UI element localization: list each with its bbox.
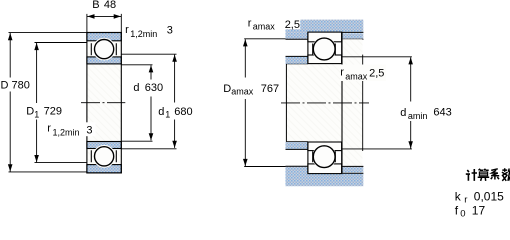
groove clearance right bottom <box>312 145 336 169</box>
left inner ring top section (blue) <box>87 57 121 64</box>
dimension d: bottom arrow <box>149 133 154 140</box>
housing shoulder tab bottom-left (blue) <box>286 166 308 173</box>
svg-text:D: D <box>223 83 231 95</box>
svg-text:767: 767 <box>261 83 279 95</box>
centerline left figure <box>81 102 125 104</box>
ball right bottom <box>313 146 335 168</box>
right race shoulders top <box>313 44 336 55</box>
svg-text:r: r <box>464 195 467 206</box>
right bearing bottom outer ring (white) <box>308 164 342 174</box>
dimension da min: extension lines <box>342 57 412 149</box>
shaft shoulder strip top border <box>286 55 308 57</box>
dimension B: extension lines <box>87 14 121 33</box>
svg-text:0,015: 0,015 <box>474 189 504 203</box>
housing bottom band (blue) <box>286 174 364 187</box>
right bearing top inner ring (white) <box>308 55 342 64</box>
dimension D: extension lines <box>9 33 87 172</box>
svg-text:f: f <box>455 203 459 217</box>
svg-text:amax: amax <box>231 87 254 97</box>
svg-text:2,5: 2,5 <box>369 68 384 80</box>
shaft shoulder strip bottom border <box>286 148 308 150</box>
housing shoulder tab bottom-left top border <box>286 165 308 167</box>
label ra max 2,5 middle (on white box) <box>340 65 386 82</box>
right bearing section side faces top <box>308 32 342 64</box>
right race shoulders bottom <box>313 151 336 162</box>
svg-text:3: 3 <box>167 25 173 37</box>
label r12min 3 bottom (on white box) <box>83 122 96 136</box>
ball right top <box>313 38 335 60</box>
dimension d1: extension lines <box>121 54 176 149</box>
svg-text:2,5: 2,5 <box>285 19 300 31</box>
ball top <box>95 40 114 59</box>
dimension Da max: dimension line <box>244 39 246 166</box>
svg-text:B: B <box>92 0 99 11</box>
bottom race shoulders <box>91 150 116 162</box>
svg-text:1,2min: 1,2min <box>53 127 80 137</box>
right bearing top outer ring (white) <box>308 32 342 42</box>
ball bottom <box>95 147 114 166</box>
dimension D: dimension line <box>9 33 11 172</box>
shaft shoulder strip top (blue) <box>286 56 308 63</box>
CJK heading: 数 <box>502 168 510 181</box>
housing shoulder tab bottom border <box>286 38 308 40</box>
dimension D: top arrow <box>8 33 13 40</box>
centerline right figure <box>281 102 369 104</box>
left inner ring bottom section (blue) <box>87 142 121 149</box>
housing recess strip right top (blue) <box>342 33 363 39</box>
dimension D1: dimension line <box>36 43 38 162</box>
dimension B: dimension line <box>87 15 121 17</box>
shaft surface lines <box>286 64 308 142</box>
left figure body background <box>87 33 121 173</box>
svg-text:amax: amax <box>345 71 368 81</box>
housing wall right (hatched) <box>342 39 363 166</box>
dimension d1: dimension line <box>174 55 176 148</box>
groove clearance top <box>93 38 116 61</box>
shaft body (hatched) <box>286 64 342 142</box>
dimension d1: top arrow <box>172 55 177 62</box>
svg-text:D: D <box>1 80 9 92</box>
dimension da min: dimension line <box>410 57 412 148</box>
svg-text:amin: amin <box>408 111 428 121</box>
dimension da min: bottom arrow <box>408 141 413 148</box>
svg-text:r: r <box>248 18 252 30</box>
dimension d: extension lines <box>121 65 152 141</box>
housing shoulder tab left (blue) <box>286 32 308 39</box>
svg-text:r: r <box>47 123 51 135</box>
top race shoulders <box>91 43 116 55</box>
dimension D: bottom arrow <box>8 164 13 171</box>
dimension D1: bottom arrow <box>34 155 39 162</box>
svg-text:643: 643 <box>433 107 451 119</box>
dimension D1: extension lines <box>35 43 87 163</box>
svg-text:1,2min: 1,2min <box>130 29 157 39</box>
svg-text:1: 1 <box>34 109 39 119</box>
CJK heading: 系 <box>491 169 499 180</box>
svg-text:d: d <box>400 107 406 119</box>
dimension B: left arrow <box>87 14 94 19</box>
svg-text:D: D <box>26 106 34 118</box>
dimension D1: top arrow <box>34 43 39 50</box>
groove clearance right top <box>312 37 336 61</box>
svg-text:0: 0 <box>460 208 465 218</box>
dimension d1: bottom arrow <box>172 141 177 148</box>
dimension B: right arrow <box>114 14 121 19</box>
left outer ring bottom section (blue) <box>87 165 121 173</box>
svg-text:680: 680 <box>174 106 192 118</box>
svg-text:48: 48 <box>104 0 116 11</box>
housing recess strip borders bottom <box>342 166 364 173</box>
label ra max 2,5 top (on white box) <box>283 17 301 29</box>
svg-text:r: r <box>340 67 344 79</box>
CJK heading: 算 <box>478 169 490 181</box>
svg-text:amax: amax <box>253 21 276 31</box>
left outer ring top section (blue) <box>87 33 121 41</box>
svg-text:729: 729 <box>44 106 62 118</box>
svg-text:d: d <box>158 106 164 118</box>
housing recess strip borders top <box>342 32 364 39</box>
svg-text:780: 780 <box>12 80 30 92</box>
housing wall right edge <box>362 55 364 151</box>
dimension da min: top arrow <box>408 57 413 64</box>
svg-text:17: 17 <box>472 203 486 217</box>
right bearing section side faces bottom <box>308 142 342 174</box>
CJK heading: 计 <box>466 169 477 181</box>
dimension Da max: top arrow <box>243 39 248 46</box>
housing recess strip right bottom (blue) <box>342 167 363 173</box>
dimension d: top arrow <box>149 65 154 72</box>
svg-text:630: 630 <box>145 82 163 94</box>
left figure outline <box>87 33 121 173</box>
bearing right face / housing wall left edge full height <box>341 32 343 173</box>
dimension d: dimension line <box>150 65 152 140</box>
housing bore band (blue) <box>286 20 364 32</box>
shaft shoulder strip bottom (blue) <box>286 142 308 149</box>
dimension Da max: extension lines <box>244 39 285 167</box>
svg-text:1: 1 <box>165 110 170 120</box>
svg-text:r: r <box>125 24 129 36</box>
dimension Da max: bottom arrow <box>243 159 248 166</box>
svg-text:3: 3 <box>86 125 92 137</box>
svg-text:d: d <box>133 82 139 94</box>
groove clearance bottom <box>93 145 116 168</box>
shaft left face <box>285 64 287 142</box>
right bearing bottom inner ring (white) <box>308 142 342 151</box>
svg-text:k: k <box>455 189 462 203</box>
